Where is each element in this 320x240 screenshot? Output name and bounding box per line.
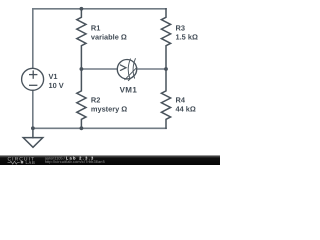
svg-text:44 kΩ: 44 kΩ	[176, 105, 196, 114]
svg-text:R1: R1	[91, 23, 100, 32]
svg-text:10 V: 10 V	[49, 81, 64, 90]
svg-text:R2: R2	[91, 95, 100, 104]
svg-text:variable Ω: variable Ω	[91, 33, 127, 42]
svg-text:R4: R4	[176, 95, 186, 104]
svg-text:1.5 kΩ: 1.5 kΩ	[176, 33, 198, 42]
svg-text:LAB: LAB	[26, 160, 36, 165]
svg-text:VM1: VM1	[120, 85, 138, 94]
svg-text:http://circuitlab.com/c/7rbb36: http://circuitlab.com/c/7rbb36an5	[45, 159, 105, 164]
svg-text:mystery Ω: mystery Ω	[91, 105, 127, 114]
svg-text:V1: V1	[49, 72, 58, 81]
svg-text:R3: R3	[176, 23, 185, 32]
